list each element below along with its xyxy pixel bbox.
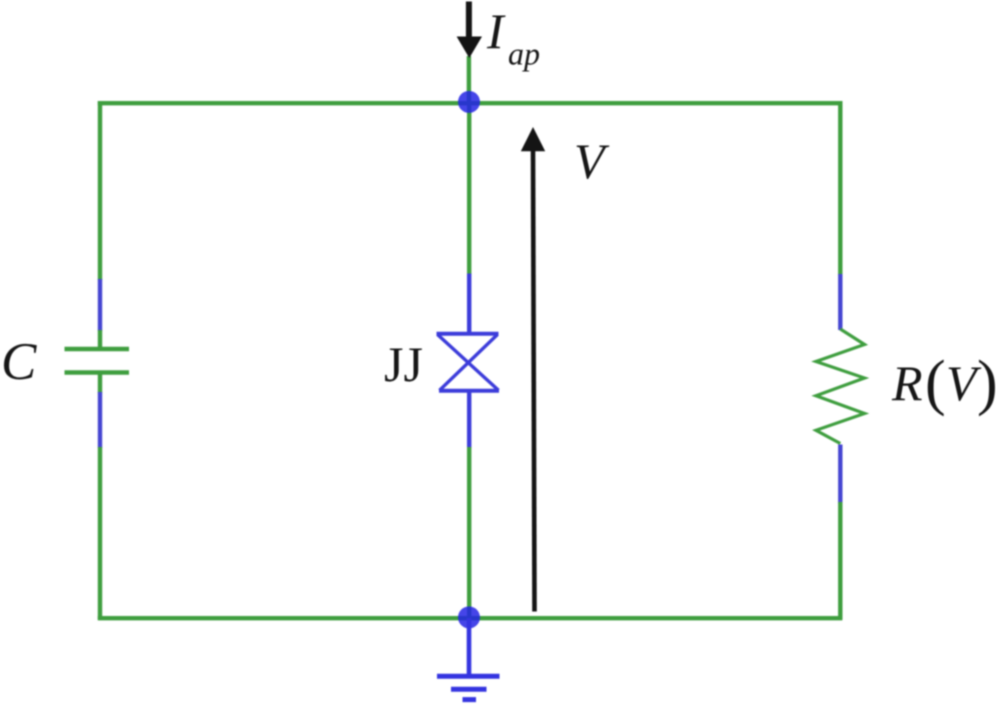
svg-text:): ) bbox=[977, 349, 996, 417]
voltage arrow V bbox=[521, 127, 545, 612]
wire right branch upper bbox=[838, 101, 842, 275]
wire middle from arrow to top node bbox=[467, 56, 471, 105]
svg-text:I: I bbox=[486, 3, 506, 59]
svg-text:(: ( bbox=[925, 349, 946, 417]
lead resistor bottom (blue) bbox=[838, 445, 842, 504]
wire right branch lower bbox=[838, 502, 842, 620]
lead capacitor top (blue) bbox=[98, 279, 102, 331]
svg-text:JJ: JJ bbox=[384, 336, 423, 392]
wire middle branch lower bbox=[467, 447, 471, 619]
wire stub above capacitor bbox=[98, 330, 102, 349]
wire stub below capacitor bbox=[98, 373, 102, 394]
wire middle branch upper bbox=[467, 103, 471, 275]
label I ap bbox=[486, 3, 540, 72]
node bottom junction dot bbox=[458, 606, 480, 628]
current source arrow Iap bbox=[457, 2, 482, 59]
svg-text:V: V bbox=[574, 133, 610, 189]
Josephson junction JJ symbol bbox=[437, 334, 500, 391]
lead resistor top (blue) bbox=[838, 274, 842, 330]
wire left branch lower bbox=[98, 447, 102, 620]
label R(V) bbox=[891, 349, 996, 417]
svg-text:ap: ap bbox=[508, 36, 540, 72]
wire left branch upper bbox=[98, 101, 102, 280]
lead JJ top (blue) bbox=[467, 274, 471, 335]
node top junction dot bbox=[458, 91, 480, 113]
lead capacitor bottom (blue) bbox=[98, 392, 102, 448]
svg-text:R: R bbox=[891, 355, 923, 411]
resistor R(V) zigzag bbox=[816, 329, 865, 444]
lead JJ bottom (blue) bbox=[467, 391, 471, 448]
svg-text:C: C bbox=[1, 333, 37, 391]
ground bbox=[437, 618, 500, 700]
capacitor C plates bbox=[65, 349, 130, 373]
wire top horizontal bbox=[98, 101, 843, 105]
wire bottom horizontal bbox=[98, 616, 843, 620]
